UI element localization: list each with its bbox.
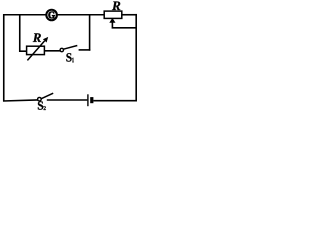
potentiometer R (top right) slider arrowhead: [109, 18, 115, 23]
wire S1 to riser: [79, 49, 91, 51]
potentiometer R (top right) value label R: [112, 2, 120, 11]
switch S2 label: [38, 101, 46, 110]
wire S1 branch riser (up to top wire junction): [89, 14, 91, 51]
wire top-middle segment (G to pot R): [57, 14, 104, 16]
rheostat R (middle left) body: [27, 46, 45, 54]
switch S2 pivot circle: [38, 97, 42, 101]
switch S2 blade: [41, 93, 53, 99]
battery cell positive plate (long): [87, 94, 89, 106]
switch S1 label: [66, 53, 73, 62]
battery cell negative plate (short thick): [90, 97, 93, 103]
wire inner-left vertical (top wire down to rheostat branch): [19, 14, 21, 52]
rheostat R (middle left) value label R: [33, 33, 41, 42]
rheostat R (middle left) diagonal arrow shaft: [27, 41, 44, 61]
switch S1 blade: [63, 46, 77, 50]
potentiometer R (top right) body: [104, 11, 122, 18]
galvanometer U1 label G: [49, 12, 55, 19]
wire bottom-middle segment (S2 to battery): [47, 99, 88, 101]
wire bottom-right segment (battery to right edge): [93, 100, 137, 102]
wire right edge: [135, 14, 137, 102]
wire pot slider return: [112, 22, 137, 27]
wire left edge: [3, 14, 5, 102]
galvanometer U1 circle: [46, 10, 57, 21]
wire top-left segment: [3, 14, 46, 16]
wire rheostat branch left: [19, 50, 27, 52]
rheostat R (middle left) diagonal arrowhead: [43, 37, 48, 43]
wire bottom-left segment: [3, 100, 38, 101]
wire rheostat to switch S1: [44, 50, 60, 52]
switch S1 pivot circle: [60, 48, 63, 51]
wire top-right segment (pot R to right edge): [122, 14, 137, 16]
